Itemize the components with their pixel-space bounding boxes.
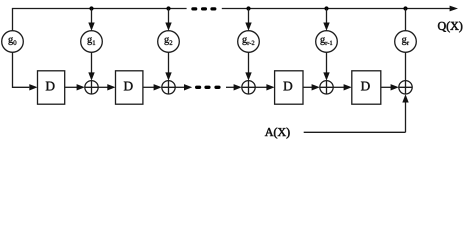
node: top line junction dot col g1 <box>89 6 93 10</box>
wire: gr-2 arrow down into adder <box>248 52 250 73</box>
label A(X) <box>265 128 290 139</box>
node: top line junction dot col gr-2 <box>246 6 250 10</box>
label D2 <box>124 82 133 91</box>
wire: g0 down and corner into register chain <box>13 52 30 87</box>
wire: D1 output arrow into adder 1 <box>65 86 78 88</box>
adder XOR 5 (output) <box>399 81 412 94</box>
wire: top line arrow down into gr-1 <box>326 9 328 24</box>
wire: A(X) vertical up into output adder <box>405 101 407 132</box>
wire: ellipsis arrow into adder 3 <box>226 86 235 88</box>
ellipsis on register chain <box>195 86 221 89</box>
multiplier gr <box>395 31 417 53</box>
label gr <box>402 37 409 45</box>
node: top line junction dot col gr-1 <box>324 6 328 10</box>
multiplier g1 <box>81 31 103 53</box>
label D4 <box>361 82 370 91</box>
wire: A(X) input horizontal line <box>304 131 406 133</box>
multiplier gr-1 <box>316 31 338 53</box>
wire: D4 output arrow into output adder <box>381 86 392 88</box>
multiplier g2 <box>158 31 180 53</box>
label Q(X) <box>438 21 462 32</box>
wire: adder 4 output arrow into D4 <box>333 86 344 88</box>
label g0 <box>8 37 16 45</box>
wire: top feedback line left segment <box>12 8 187 10</box>
wire: g2 arrow down into adder <box>168 52 170 73</box>
label D3 <box>283 82 292 91</box>
wire: top feedback line right segment <box>222 8 450 10</box>
register D3 <box>275 71 303 104</box>
node: top line junction dot col gr <box>403 6 407 10</box>
label gr-2 <box>242 37 254 45</box>
wire: gr-1 arrow down into adder <box>326 52 328 73</box>
multiplier gr-2 <box>238 31 260 53</box>
wire: top line arrow down into g2 <box>168 9 170 24</box>
adder XOR 3 <box>242 81 255 94</box>
wire: D3 output arrow into adder 4 <box>303 86 313 88</box>
register D4 <box>352 71 381 104</box>
register D1 <box>38 71 65 104</box>
wire: D2 output arrow into adder 2 <box>143 86 155 88</box>
label g2 <box>164 37 172 45</box>
label D1 <box>46 82 55 91</box>
label g1 <box>87 37 95 45</box>
wire: arrowhead into D1 <box>29 84 37 90</box>
register D2 <box>116 71 143 104</box>
multiplier g0 <box>2 31 24 53</box>
wire: adder 2 short arrow toward ellipsis <box>175 86 185 88</box>
label gr-1 <box>320 37 332 45</box>
adder XOR 2 <box>162 81 175 94</box>
wire: g0 column top vertical <box>12 9 14 31</box>
adder XOR 4 <box>320 81 333 94</box>
wire: adder 1 output arrow into D2 <box>98 86 108 88</box>
wire: top line output arrowhead to Q(X) <box>450 6 458 12</box>
ellipsis on top line <box>191 7 216 10</box>
adder XOR 1 <box>85 81 98 94</box>
wire: top line arrow down into gr-2 <box>248 9 250 24</box>
wire: adder 3 output arrow into D3 <box>255 86 267 88</box>
wire: gr down to output adder <box>405 52 407 80</box>
wire: gr column top vertical <box>405 9 407 31</box>
wire: top line arrow down into g1 <box>91 9 93 24</box>
wire: g1 arrow down into adder <box>91 52 93 73</box>
node: top line junction dot col g2 <box>166 6 170 10</box>
